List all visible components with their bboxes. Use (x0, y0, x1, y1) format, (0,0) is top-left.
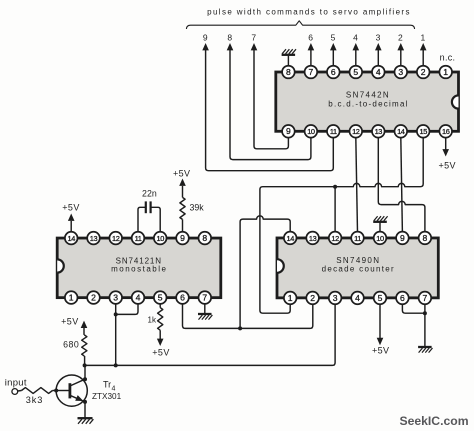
svg-text:13: 13 (309, 234, 317, 243)
svg-text:5: 5 (378, 293, 383, 303)
svg-text:1: 1 (443, 67, 448, 77)
svg-text:10: 10 (156, 234, 164, 243)
svg-text:+5V: +5V (61, 316, 78, 326)
svg-text:14: 14 (67, 234, 75, 243)
svg-text:3k3: 3k3 (26, 395, 44, 405)
svg-text:13: 13 (90, 234, 98, 243)
svg-text:7: 7 (202, 293, 207, 303)
svg-text:3: 3 (376, 33, 381, 43)
svg-text:ZTX301: ZTX301 (92, 392, 122, 401)
svg-text:8: 8 (202, 233, 207, 243)
svg-text:8: 8 (423, 233, 428, 243)
svg-text:9: 9 (203, 33, 208, 43)
svg-text:16: 16 (442, 127, 450, 136)
svg-text:6: 6 (180, 293, 185, 303)
svg-text:SN7490N: SN7490N (336, 256, 380, 265)
svg-text:14: 14 (286, 234, 294, 243)
svg-text:6: 6 (331, 67, 336, 77)
svg-text:9: 9 (400, 233, 405, 243)
svg-text:+5V: +5V (438, 161, 455, 171)
svg-text:9: 9 (180, 233, 185, 243)
svg-text:monostable: monostable (111, 265, 167, 274)
svg-text:10: 10 (307, 127, 315, 136)
svg-text:SN7442N: SN7442N (346, 91, 390, 100)
svg-text:pulse width commands to servo: pulse width commands to servo amplifiers (207, 7, 411, 16)
svg-text:11: 11 (135, 234, 142, 243)
svg-text:8: 8 (227, 33, 232, 43)
svg-text:2: 2 (398, 33, 403, 43)
svg-text:7: 7 (423, 293, 428, 303)
svg-text:11: 11 (354, 234, 361, 243)
svg-text:4: 4 (353, 33, 358, 43)
svg-text:1: 1 (288, 293, 293, 303)
svg-text:2: 2 (310, 293, 315, 303)
svg-text:4: 4 (136, 293, 141, 303)
svg-text:7: 7 (309, 67, 314, 77)
svg-text:680: 680 (63, 340, 79, 350)
svg-text:1k: 1k (148, 316, 157, 325)
svg-text:10: 10 (376, 234, 384, 243)
svg-text:4: 4 (376, 67, 381, 77)
svg-text:3: 3 (113, 293, 118, 303)
svg-text:+5V: +5V (173, 169, 190, 179)
svg-text:3: 3 (398, 67, 403, 77)
svg-text:5: 5 (158, 293, 163, 303)
svg-text:2: 2 (421, 67, 426, 77)
svg-text:3: 3 (333, 293, 338, 303)
svg-text:12: 12 (331, 234, 339, 243)
svg-text:input: input (5, 377, 27, 388)
svg-text:1: 1 (421, 33, 426, 43)
svg-text:6: 6 (308, 33, 313, 43)
svg-text:39k: 39k (190, 202, 205, 212)
svg-text:7: 7 (251, 33, 256, 43)
svg-text:decade counter: decade counter (322, 265, 395, 274)
svg-text:b.c.d.-to-decimal: b.c.d.-to-decimal (328, 100, 408, 109)
svg-text:11: 11 (330, 127, 337, 136)
svg-text:4: 4 (355, 293, 360, 303)
svg-text:+5V: +5V (152, 347, 169, 357)
svg-text:2: 2 (91, 293, 96, 303)
svg-text:Tr: Tr (103, 380, 111, 390)
svg-text:5: 5 (353, 67, 358, 77)
svg-text:+5V: +5V (62, 202, 79, 212)
svg-text:9: 9 (286, 126, 291, 136)
svg-text:8: 8 (286, 67, 291, 77)
svg-text:22n: 22n (142, 188, 157, 198)
svg-text:+5V: +5V (372, 346, 389, 356)
svg-text:13: 13 (375, 127, 383, 136)
svg-text:n.c.: n.c. (440, 53, 456, 63)
svg-text:5: 5 (331, 33, 336, 43)
svg-text:12: 12 (112, 234, 120, 243)
svg-text:6: 6 (400, 293, 405, 303)
svg-text:SeekIC.com: SeekIC.com (399, 414, 468, 428)
svg-text:1: 1 (69, 293, 74, 303)
svg-text:14: 14 (397, 127, 405, 136)
svg-text:15: 15 (419, 127, 427, 136)
svg-text:12: 12 (352, 127, 360, 136)
